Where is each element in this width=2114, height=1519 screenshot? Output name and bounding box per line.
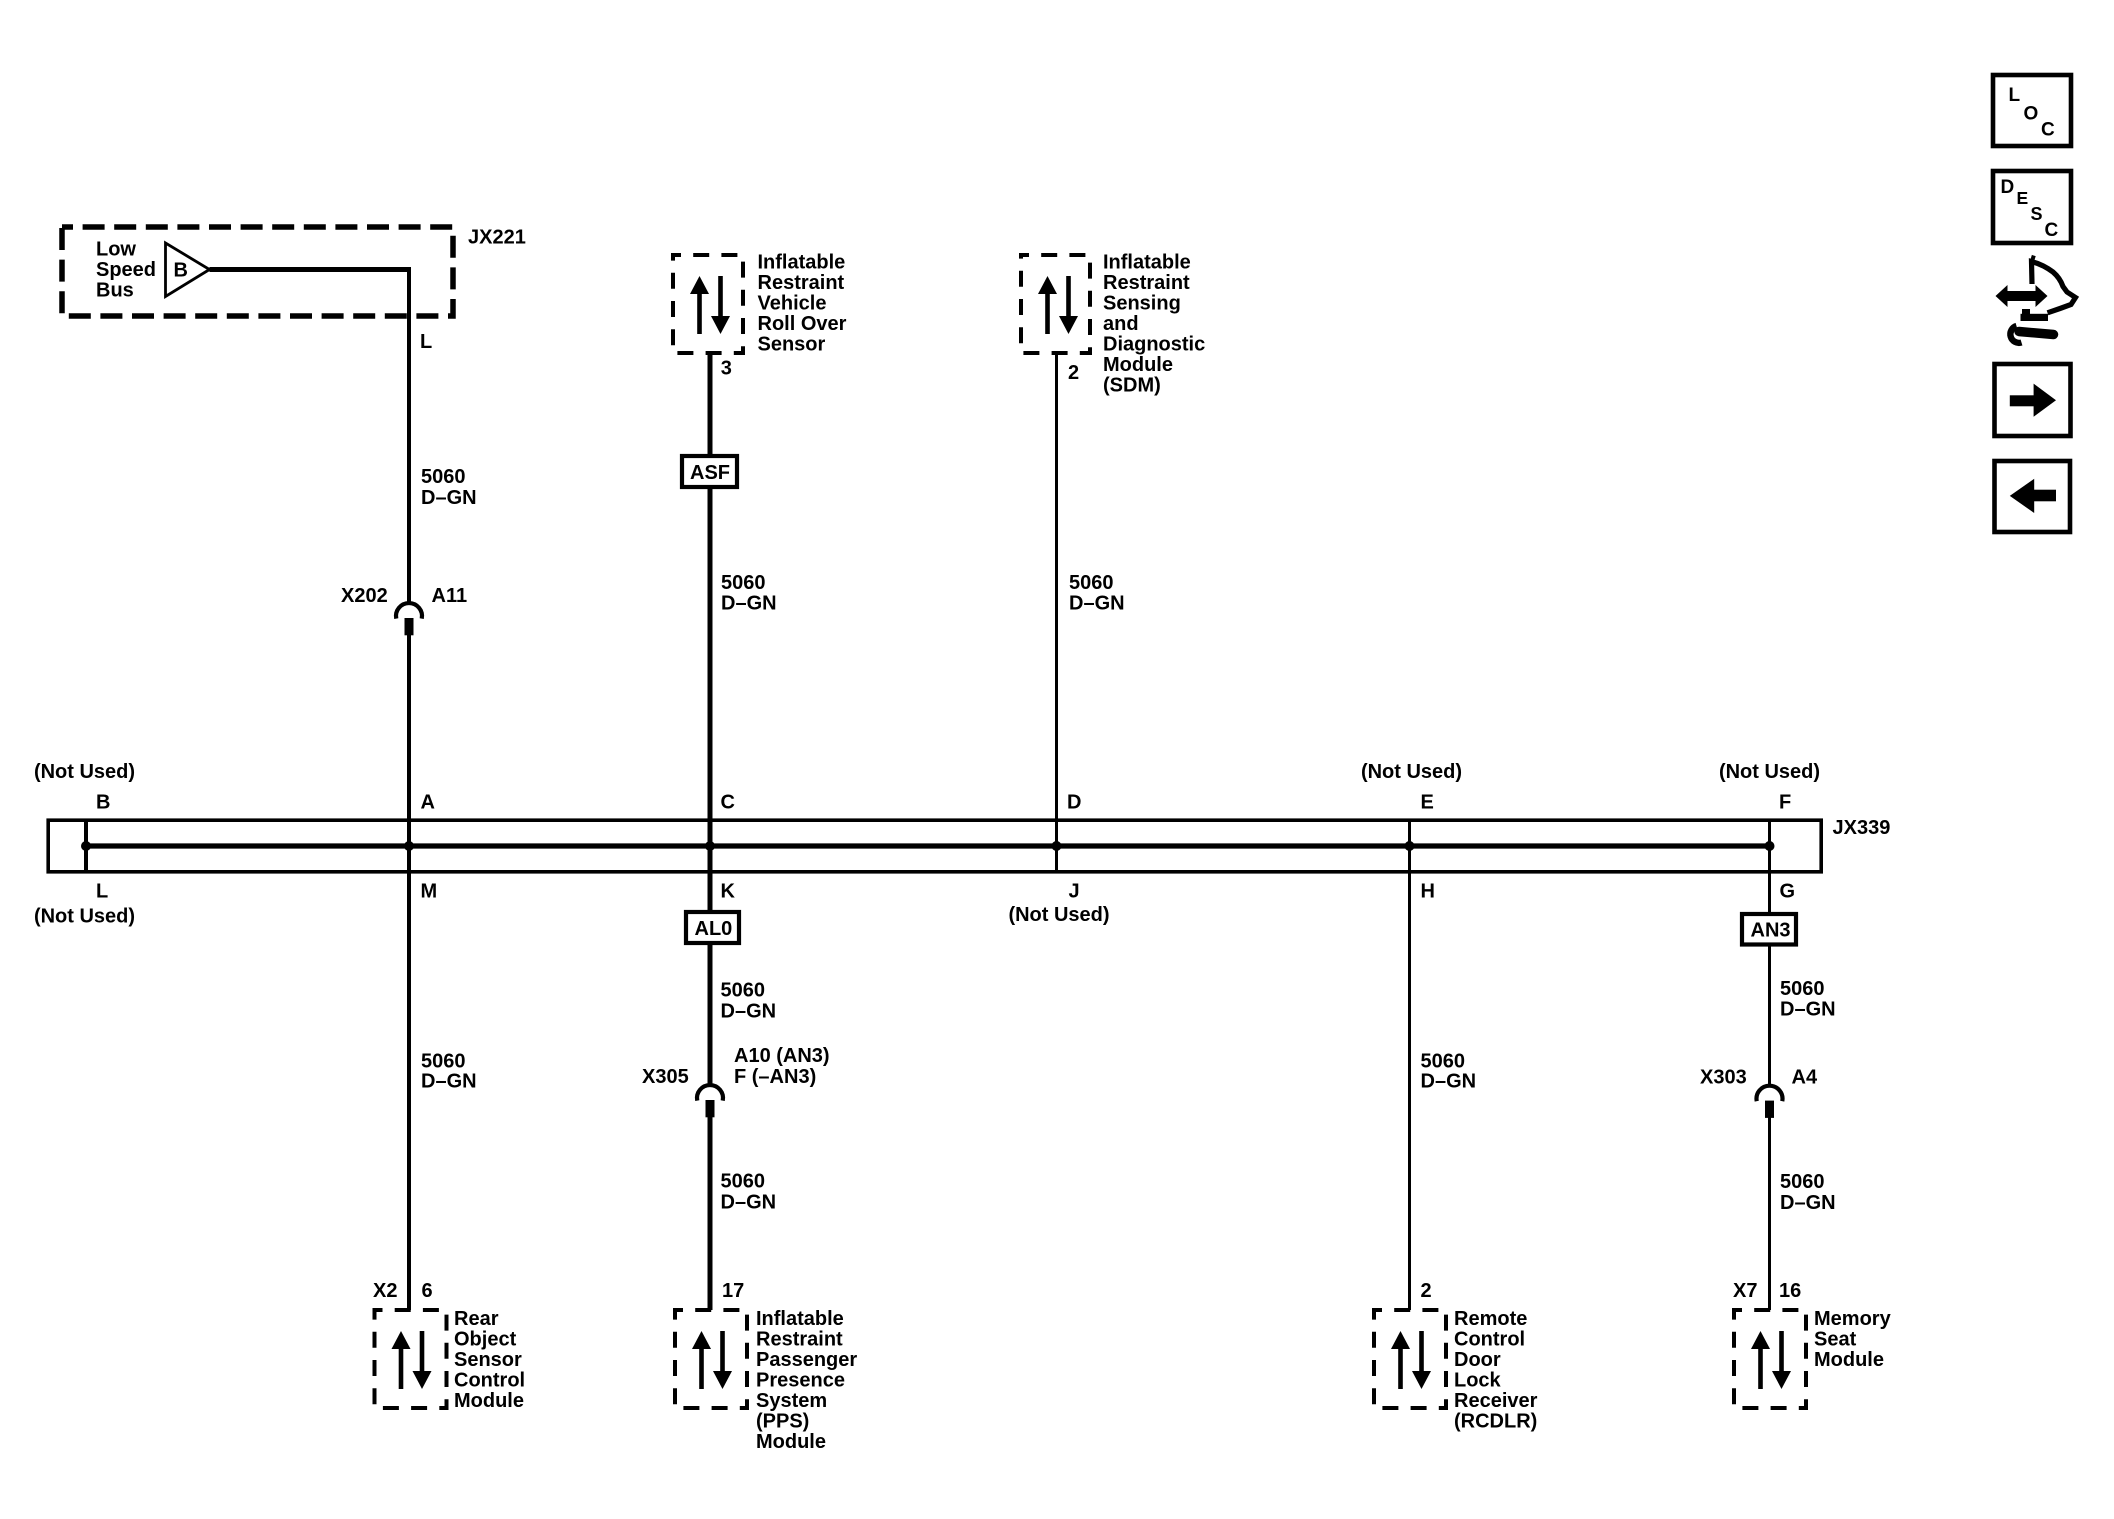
svg-text:D–GN: D–GN (1421, 1071, 1477, 1093)
svg-text:Memory: Memory (1814, 1308, 1892, 1330)
svg-text:16: 16 (1779, 1280, 1801, 1302)
svg-text:Roll Over: Roll Over (758, 313, 847, 335)
component Inflatable Restraint Sensing and Diagnostic Module (SDM) (1021, 255, 1090, 353)
pin X2 / 6 (373, 1280, 433, 1302)
svg-text:X303: X303 (1700, 1067, 1747, 1089)
label JX339 (1833, 817, 1891, 839)
junction dots (81, 841, 1775, 851)
splice pack JX221 dashed box (62, 227, 453, 316)
svg-text:A: A (421, 792, 435, 814)
svg-text:A11: A11 (432, 585, 468, 607)
wire bus node G through AN3 to X303 (1768, 820, 1771, 1085)
svg-text:(RCDLR): (RCDLR) (1454, 1411, 1537, 1433)
svg-text:(Not Used): (Not Used) (1719, 761, 1820, 783)
wire label 5060 D-GN (M lower) (421, 1051, 477, 1093)
pin 2 of RCDLR (1421, 1280, 1432, 1302)
component Remote Control Door Lock Receiver (RCDLR) (1374, 1310, 1446, 1408)
svg-text:D: D (1067, 792, 1081, 814)
svg-text:Lock: Lock (1454, 1370, 1502, 1392)
component Inflatable Restraint Passenger Presence System (PPS) Module (675, 1310, 747, 1408)
svg-text:S: S (2031, 204, 2043, 224)
svg-text:X2: X2 (373, 1280, 397, 1302)
svg-text:Inflatable: Inflatable (1103, 252, 1191, 274)
node letters bottom (96, 881, 1795, 903)
wire label 5060 D-GN (K lower) (721, 1171, 777, 1214)
svg-text:Restraint: Restraint (756, 1329, 843, 1351)
svg-text:(SDM): (SDM) (1103, 375, 1161, 397)
svg-text:Control: Control (454, 1370, 525, 1392)
svg-text:Seat: Seat (1814, 1329, 1857, 1351)
svg-text:L: L (96, 881, 108, 903)
svg-text:Object: Object (454, 1329, 517, 1351)
wire pin 3 to ASF (708, 353, 713, 460)
icon button LOC (1993, 75, 2071, 146)
svg-text:F: F (1779, 792, 1791, 814)
svg-text:AL0: AL0 (695, 918, 733, 940)
svg-text:D–GN: D–GN (421, 487, 477, 509)
svg-text:D–GN: D–GN (1069, 593, 1125, 615)
svg-text:C: C (2045, 220, 2059, 241)
pin 17 (722, 1280, 744, 1302)
svg-text:K: K (721, 881, 736, 903)
wire label 5060 D-GN (G upper) (1780, 978, 1836, 1021)
svg-text:D–GN: D–GN (421, 1071, 477, 1093)
icon button forward arrow (1995, 364, 2071, 436)
svg-text:D: D (2001, 177, 2015, 198)
svg-text:Bus: Bus (96, 280, 134, 302)
svg-text:(PPS): (PPS) (756, 1411, 809, 1433)
pin 2 of SDM (1068, 362, 1079, 384)
svg-text:D–GN: D–GN (721, 593, 777, 615)
stub node B/L (not used) (84, 820, 88, 872)
svg-text:2: 2 (1068, 362, 1079, 384)
svg-text:Door: Door (1454, 1349, 1501, 1371)
label JX221 (468, 227, 526, 249)
svg-text:X305: X305 (642, 1066, 689, 1088)
svg-text:(Not Used): (Not Used) (34, 761, 135, 783)
svg-text:Low: Low (96, 239, 136, 261)
not-used annotations (34, 761, 1820, 928)
wire label 5060 D-GN (C upper) (721, 572, 777, 615)
svg-text:Diagnostic: Diagnostic (1103, 334, 1205, 356)
svg-text:Module: Module (1103, 354, 1173, 376)
wire X305 to PPS module pin 17 (708, 1116, 713, 1310)
svg-text:Remote: Remote (1454, 1308, 1527, 1330)
svg-text:X7: X7 (1733, 1280, 1757, 1302)
svg-text:B: B (174, 260, 188, 282)
connector X202 pin A11 (341, 585, 467, 635)
wire label 5060 D-GN (K below bus) (721, 980, 777, 1023)
svg-text:3: 3 (721, 358, 732, 380)
svg-text:Speed: Speed (96, 259, 156, 281)
wire label 5060 D-GN (H) (1421, 1051, 1477, 1093)
svg-text:Rear: Rear (454, 1308, 499, 1330)
svg-text:and: and (1103, 313, 1139, 335)
svg-text:(Not Used): (Not Used) (34, 906, 135, 928)
svg-text:Presence: Presence (756, 1370, 845, 1392)
svg-text:6: 6 (422, 1280, 433, 1302)
svg-text:Sensor: Sensor (454, 1349, 522, 1371)
svg-text:Receiver: Receiver (1454, 1390, 1538, 1412)
svg-text:Vehicle: Vehicle (758, 293, 827, 315)
svg-text:B: B (96, 792, 110, 814)
svg-text:Restraint: Restraint (1103, 272, 1190, 294)
svg-text:D–GN: D–GN (721, 1001, 777, 1023)
svg-text:Inflatable: Inflatable (758, 252, 846, 274)
svg-text:J: J (1069, 881, 1080, 903)
splice pack JX339 outline (48, 820, 1821, 872)
wire label 5060 D-GN (G lower) (1780, 1171, 1836, 1214)
svg-text:5060: 5060 (1780, 978, 1825, 1000)
svg-text:(Not Used): (Not Used) (1008, 904, 1109, 926)
wire X202 to bus node A (407, 635, 411, 849)
icon button back arrow (1995, 461, 2071, 532)
buffer triangle B (166, 243, 210, 297)
svg-text:L: L (420, 331, 432, 353)
component Memory Seat Module (1734, 1310, 1806, 1408)
wire label 5060 D-GN (A11 upper) (421, 466, 477, 509)
svg-text:Sensing: Sensing (1103, 293, 1181, 315)
svg-text:A4: A4 (1792, 1067, 1818, 1089)
svg-text:JX221: JX221 (468, 227, 526, 249)
svg-text:5060: 5060 (721, 980, 766, 1002)
component Rear Object Sensor Control Module (375, 1310, 447, 1408)
svg-text:Inflatable: Inflatable (756, 1308, 844, 1330)
svg-text:System: System (756, 1390, 827, 1412)
bus bar (86, 843, 1770, 848)
svg-text:AN3: AN3 (1751, 920, 1791, 942)
svg-text:D–GN: D–GN (1780, 1192, 1836, 1214)
svg-text:Sensor: Sensor (758, 334, 826, 356)
harness label AL0 (686, 912, 739, 943)
connector X303 pin A4 (1700, 1067, 1818, 1118)
svg-text:5060: 5060 (1780, 1171, 1825, 1193)
svg-text:D–GN: D–GN (721, 1192, 777, 1214)
component Inflatable Restraint Vehicle Roll Over Sensor (673, 255, 743, 353)
svg-text:Restraint: Restraint (758, 272, 845, 294)
wire bus node M down to X2 (407, 844, 411, 1310)
svg-text:Control: Control (1454, 1329, 1525, 1351)
svg-text:Module: Module (454, 1390, 524, 1412)
wire X303 to memory seat module pin 16 (1768, 1117, 1771, 1311)
pin 3 of roll over sensor (721, 358, 732, 380)
wire SDM pin 2 to bus node D (1055, 355, 1058, 872)
svg-text:E: E (2017, 188, 2029, 208)
wire from triangle B to node L (210, 267, 412, 603)
wire label 5060 D-GN (D) (1069, 572, 1125, 615)
svg-text:Module: Module (1814, 1349, 1884, 1371)
harness label ASF (682, 456, 737, 487)
harness label AN3 (1742, 914, 1796, 945)
wire ASF to bus node C, through AL0, to X305 (708, 483, 713, 1085)
svg-text:5060: 5060 (1421, 1051, 1466, 1073)
icon vehicle/wiring with double arrow and wrench (1996, 256, 2076, 343)
svg-text:(Not Used): (Not Used) (1361, 761, 1462, 783)
svg-text:D–GN: D–GN (1780, 999, 1836, 1021)
svg-text:A10 (AN3): A10 (AN3) (734, 1045, 830, 1067)
svg-text:C: C (2041, 120, 2055, 141)
svg-text:17: 17 (722, 1280, 744, 1302)
svg-text:ASF: ASF (690, 462, 730, 484)
svg-text:M: M (421, 881, 438, 903)
svg-text:2: 2 (1421, 1280, 1432, 1302)
node L of JX221 (420, 331, 432, 353)
svg-text:5060: 5060 (421, 1051, 466, 1073)
wire bus node H to RCDLR pin 2 (1408, 820, 1411, 1310)
svg-text:X202: X202 (341, 585, 388, 607)
node letters top (96, 792, 1791, 814)
connector X305 pins A10 (AN3) / F (-AN3) (642, 1045, 830, 1117)
svg-text:5060: 5060 (721, 1171, 766, 1193)
svg-text:O: O (2024, 104, 2039, 125)
svg-text:F (–AN3): F (–AN3) (734, 1066, 816, 1088)
svg-text:5060: 5060 (1069, 572, 1114, 594)
svg-text:L: L (2009, 85, 2021, 106)
icon button DESC (1993, 171, 2071, 243)
svg-text:Module: Module (756, 1431, 826, 1453)
label Low Speed Bus (96, 239, 156, 302)
svg-text:E: E (1421, 792, 1434, 814)
svg-text:C: C (721, 792, 735, 814)
svg-text:5060: 5060 (721, 572, 766, 594)
svg-text:G: G (1780, 881, 1796, 903)
svg-text:Passenger: Passenger (756, 1349, 857, 1371)
pin X7 / 16 (1733, 1280, 1801, 1302)
svg-text:H: H (1421, 881, 1435, 903)
svg-text:5060: 5060 (421, 466, 466, 488)
svg-text:JX339: JX339 (1833, 817, 1891, 839)
